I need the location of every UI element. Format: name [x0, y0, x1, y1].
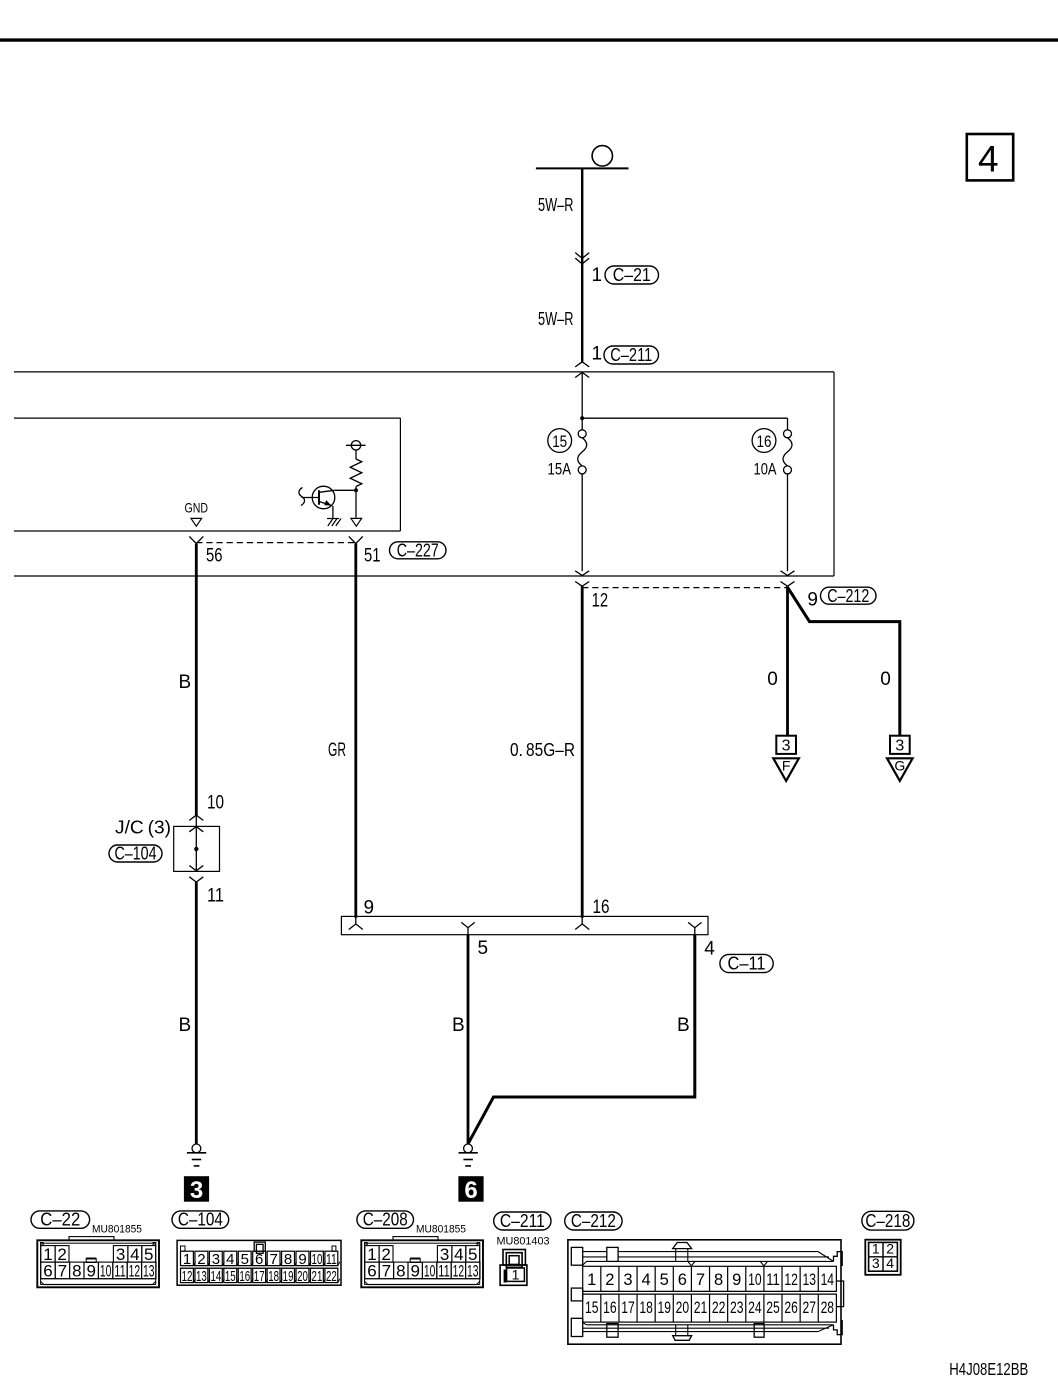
C-212 pin 24	[745, 1294, 747, 1322]
off-page triangle G	[887, 758, 913, 781]
svg-text:MU801403: MU801403	[497, 1235, 550, 1247]
svg-text:C–104: C–104	[115, 844, 157, 864]
svg-text:B: B	[179, 672, 192, 693]
svg-text:11: 11	[207, 886, 224, 907]
svg-text:10: 10	[207, 793, 224, 814]
C-22 pin 13	[142, 1262, 156, 1279]
fuse 16 number circle	[752, 429, 776, 453]
connector label C-104 bottom	[172, 1211, 229, 1228]
junction connector J/C(3) box C-104	[195, 815, 197, 870]
connector C-208 corner keys	[365, 1243, 368, 1246]
svg-text:11: 11	[438, 1261, 450, 1280]
connector label C-212 mid	[821, 587, 877, 604]
C-104 pin 13	[195, 1268, 208, 1282]
connector C-11 box	[341, 916, 708, 934]
C-22 pin 1	[41, 1246, 55, 1263]
svg-text:H4J08E12BB: H4J08E12BB	[949, 1359, 1028, 1379]
C-212 pin 3	[618, 1266, 620, 1291]
svg-text:10: 10	[424, 1261, 436, 1280]
svg-text:16: 16	[757, 432, 772, 451]
connector label C-212 bottom	[565, 1212, 622, 1230]
C-212 pin 14	[817, 1266, 819, 1291]
svg-text:3: 3	[623, 1271, 632, 1289]
transistor Q1 (output)	[312, 486, 335, 509]
C-104 pin 16	[238, 1268, 251, 1282]
C-212 crossing chevrons pin 12	[575, 571, 589, 576]
connector C-22 centre lock tab	[86, 1259, 96, 1263]
svg-text:24: 24	[748, 1299, 762, 1317]
C-208 pin 5	[466, 1246, 480, 1263]
connector C-22 bottom tray lines	[41, 1278, 156, 1280]
C-22 pin 7	[55, 1262, 69, 1279]
sheet reference square 3 for G	[890, 736, 910, 754]
connector C-104 top tab	[254, 1242, 265, 1251]
svg-text:6: 6	[367, 1261, 376, 1280]
svg-text:13: 13	[467, 1261, 479, 1280]
C-208 pin 11	[437, 1262, 451, 1279]
svg-text:MU801855: MU801855	[92, 1224, 142, 1236]
svg-text:C–211: C–211	[610, 345, 652, 365]
wire B from J/C down to ground	[195, 882, 198, 1144]
C-212 pin 21	[690, 1294, 692, 1322]
svg-text:7: 7	[58, 1261, 67, 1280]
C-104 pin 6	[253, 1251, 266, 1265]
connector C-22 corner keys	[41, 1243, 44, 1246]
C-212 pin 23	[727, 1294, 729, 1322]
svg-text:14: 14	[210, 1268, 221, 1285]
svg-text:3: 3	[782, 738, 791, 755]
svg-text:12: 12	[453, 1261, 465, 1280]
svg-text:16: 16	[603, 1299, 617, 1317]
svg-text:4: 4	[978, 138, 999, 179]
svg-text:15A: 15A	[548, 460, 572, 479]
C-104 pin 8	[282, 1251, 295, 1265]
C-212 pin 28	[817, 1294, 819, 1322]
ECU box top edge	[14, 417, 400, 419]
C-104 pin 19	[282, 1268, 295, 1282]
C-104 pin 7	[267, 1251, 280, 1265]
resistor R (pull-up)	[350, 459, 362, 487]
svg-text:C–212: C–212	[827, 586, 869, 606]
svg-text:8: 8	[396, 1261, 405, 1280]
svg-text:B: B	[179, 1015, 192, 1036]
J/C exit forks	[189, 866, 203, 871]
svg-text:G: G	[894, 758, 905, 774]
svg-text:4: 4	[226, 1251, 234, 1268]
svg-text:15: 15	[552, 432, 567, 451]
C-104 pin 20	[296, 1268, 309, 1282]
connector label C-227	[390, 542, 447, 559]
wire power circle to resistor	[355, 450, 357, 459]
junction block box right edge	[833, 372, 835, 576]
connector C-212 body outline	[568, 1240, 841, 1344]
C-212 top centre tab	[673, 1243, 692, 1249]
svg-text:19: 19	[657, 1299, 671, 1317]
wire B pin 5 to ground	[467, 935, 470, 1144]
svg-text:0. 85G–R: 0. 85G–R	[510, 740, 575, 760]
C-212 pin 4	[636, 1266, 638, 1291]
connector C-22 top tab	[69, 1237, 114, 1241]
emitter wire to chassis ground	[332, 506, 334, 519]
connector C-208 top tab	[393, 1237, 438, 1241]
connector label C-218	[862, 1211, 914, 1230]
svg-text:MU801855: MU801855	[416, 1224, 466, 1236]
C-22 pin 10	[98, 1262, 112, 1279]
connector C-208 centre lock tab	[410, 1259, 420, 1263]
svg-text:1: 1	[592, 265, 603, 286]
svg-text:23: 23	[730, 1299, 744, 1317]
ground symbol center	[464, 1144, 473, 1153]
C-22 pin 8	[70, 1262, 84, 1279]
C-104 pin 10	[310, 1251, 323, 1265]
svg-text:1: 1	[587, 1271, 596, 1289]
C-208 pin 1	[365, 1246, 379, 1263]
C-212 pin 27	[799, 1294, 801, 1322]
C-104 pin 9	[296, 1251, 309, 1265]
C-212 crossing chevrons pin 9	[781, 571, 795, 576]
svg-text:C–211: C–211	[500, 1211, 545, 1231]
svg-text:12: 12	[182, 1268, 193, 1285]
wire GR from pin 51 down to C-11	[354, 544, 357, 918]
fuse 15 number circle	[548, 429, 572, 453]
connector C-208 body outline	[361, 1240, 483, 1287]
C-208 pin 4	[452, 1246, 466, 1263]
C-104 pin 5	[238, 1251, 251, 1265]
C-208 pin 2	[379, 1246, 393, 1263]
svg-text:18: 18	[268, 1268, 279, 1285]
svg-text:17: 17	[254, 1268, 265, 1285]
svg-text:22: 22	[326, 1268, 337, 1285]
transistor circuit power circle	[351, 441, 360, 450]
C-212 bottom centre tab	[673, 1336, 692, 1341]
svg-text:F: F	[782, 758, 791, 774]
C-104 pin 18	[267, 1268, 280, 1282]
svg-text:8: 8	[714, 1271, 723, 1289]
wire pin 9 branch diagonal	[788, 587, 900, 736]
svg-text:22: 22	[712, 1299, 726, 1317]
power source circle	[592, 146, 612, 166]
C-22 pin 4	[128, 1246, 142, 1263]
svg-text:28: 28	[821, 1299, 835, 1317]
chassis ground hatch	[327, 518, 339, 520]
C-208 pin 13	[466, 1262, 480, 1279]
svg-text:C–104: C–104	[178, 1210, 223, 1230]
C-212 pin 19	[654, 1294, 656, 1322]
svg-text:11: 11	[114, 1261, 126, 1280]
svg-text:GND: GND	[185, 500, 209, 516]
svg-text:C–218: C–218	[865, 1211, 910, 1231]
svg-text:7: 7	[382, 1261, 391, 1280]
svg-text:4: 4	[704, 939, 715, 960]
svg-text:8: 8	[72, 1261, 81, 1280]
connector C-22 body outline	[37, 1240, 159, 1287]
C-212 pin 16	[600, 1294, 602, 1322]
connector C-104 row separator	[181, 1265, 338, 1267]
svg-text:6: 6	[678, 1271, 687, 1289]
svg-text:3: 3	[895, 738, 904, 755]
svg-text:C–21: C–21	[613, 265, 651, 285]
C-212 bottom right latch	[834, 1320, 843, 1335]
C-104 pin 21	[310, 1268, 323, 1282]
svg-text:6: 6	[43, 1261, 52, 1280]
C-212 pin grid outline row2	[583, 1294, 837, 1322]
C-208 pin 7	[379, 1262, 393, 1279]
wire resistor to collector node	[355, 487, 357, 518]
svg-text:9: 9	[298, 1251, 306, 1268]
wire B pin 4 down	[468, 935, 694, 1143]
svg-text:9: 9	[807, 590, 818, 611]
svg-text:9: 9	[410, 1261, 419, 1280]
svg-text:14: 14	[821, 1271, 835, 1289]
svg-text:12: 12	[129, 1261, 141, 1280]
svg-text:C–11: C–11	[728, 954, 766, 974]
wire fuse 15 to box bottom	[581, 474, 583, 571]
svg-text:21: 21	[694, 1299, 708, 1317]
svg-text:5: 5	[478, 938, 489, 959]
svg-text:0: 0	[767, 669, 778, 690]
svg-text:10A: 10A	[754, 460, 778, 479]
C-212 pin 9	[727, 1266, 729, 1291]
svg-text:2: 2	[197, 1251, 205, 1268]
svg-text:C–208: C–208	[363, 1210, 408, 1230]
C-212 dashed connector line	[582, 587, 787, 589]
page top border line	[0, 38, 1058, 41]
svg-text:12: 12	[592, 591, 609, 612]
svg-text:5: 5	[660, 1271, 669, 1289]
svg-text:4: 4	[886, 1255, 894, 1271]
svg-text:3: 3	[212, 1251, 220, 1268]
C-212 pin 13	[799, 1266, 801, 1291]
connector C-211 crossing chevrons at box top	[575, 362, 589, 367]
C-208 pin 10	[422, 1262, 436, 1279]
off-page triangle F	[773, 758, 799, 781]
connector label C-211 bottom	[494, 1212, 551, 1230]
svg-text:51: 51	[364, 545, 381, 566]
connector C-104 corner keys	[181, 1246, 186, 1251]
connector C-104 body outline	[177, 1240, 341, 1285]
C-211 pin 1 cell	[507, 1268, 525, 1281]
GND arrow triangle	[191, 518, 202, 526]
connector C-21 inline symbol	[575, 253, 589, 259]
C-208 pin 9	[408, 1262, 422, 1279]
wire fuse 16 to box bottom	[787, 474, 789, 571]
svg-text:9: 9	[364, 898, 375, 919]
svg-text:C–22: C–22	[40, 1210, 80, 1230]
svg-text:2: 2	[605, 1271, 614, 1289]
connector label C-211	[604, 346, 659, 364]
svg-text:C–212: C–212	[571, 1211, 616, 1231]
svg-text:20: 20	[676, 1299, 690, 1317]
C-208 pin 6	[365, 1262, 379, 1279]
C-11 entry chevron pin 16	[581, 916, 583, 924]
C-22 pin 5	[142, 1246, 156, 1263]
svg-text:10: 10	[312, 1251, 323, 1268]
connector C-227 fork pin 51	[349, 536, 363, 543]
C-212 pin 11	[763, 1266, 765, 1291]
C-22 pin 6	[41, 1262, 55, 1279]
wire pin 9 vertical to F terminal	[786, 586, 789, 736]
C-212 pin 18	[636, 1294, 638, 1322]
connector C-218 body	[865, 1240, 900, 1275]
C-208 pin 8	[394, 1262, 408, 1279]
svg-text:27: 27	[802, 1299, 816, 1317]
svg-text:7: 7	[269, 1251, 277, 1268]
svg-text:3: 3	[190, 1177, 203, 1204]
C-208 pin 3	[437, 1246, 452, 1263]
svg-text:16: 16	[239, 1268, 250, 1285]
connector label C-22	[31, 1211, 90, 1228]
C-22 pin 11	[113, 1262, 127, 1279]
C-212 pin 26	[781, 1294, 783, 1322]
svg-text:9: 9	[732, 1271, 741, 1289]
svg-text:B: B	[452, 1015, 465, 1036]
junction node dot	[580, 416, 584, 420]
connector C-227 fork pin 56	[189, 536, 203, 543]
svg-text:1: 1	[183, 1251, 191, 1268]
collector node dot	[354, 488, 358, 492]
C-212 pin 5	[654, 1266, 656, 1291]
svg-text:7: 7	[696, 1271, 705, 1289]
svg-text:20: 20	[297, 1268, 308, 1285]
C-104 pin 14	[209, 1268, 222, 1282]
svg-text:8: 8	[284, 1251, 292, 1268]
svg-text:4: 4	[642, 1271, 651, 1289]
svg-text:6: 6	[464, 1177, 477, 1204]
C-104 pin 1	[181, 1251, 194, 1265]
wire B from pin 56 down to J/C	[195, 544, 198, 816]
C-104 pin 22	[325, 1268, 338, 1282]
svg-text:5: 5	[241, 1251, 249, 1268]
C-11 exit fork pin 5	[461, 922, 474, 927]
C-212 top right latch	[834, 1252, 843, 1266]
node to transistor collector wire	[335, 489, 356, 491]
transistor base squiggle lead	[299, 488, 305, 506]
svg-text:GR: GR	[328, 740, 346, 761]
C-212 pin 8	[709, 1266, 711, 1291]
C-104 pin 15	[224, 1268, 237, 1282]
svg-text:16: 16	[593, 897, 610, 918]
C-22 pin 9	[84, 1262, 98, 1279]
svg-text:11: 11	[326, 1251, 337, 1268]
wire 5W-R from power bus down to C-211	[581, 168, 583, 361]
svg-text:25: 25	[766, 1299, 780, 1317]
C-212 pin 2	[600, 1266, 602, 1291]
svg-text:12: 12	[784, 1271, 798, 1289]
fuse 16 symbol	[784, 430, 792, 438]
C-212 pin 10	[745, 1266, 747, 1291]
C-212 polarization notches	[688, 1262, 768, 1266]
junction block box top edge	[14, 371, 834, 373]
C-212 pin 20	[672, 1294, 674, 1322]
connector C-208 bottom tray lines	[365, 1278, 480, 1280]
svg-text:13: 13	[802, 1271, 816, 1289]
C-104 pin 2	[195, 1251, 208, 1265]
C-104 pin 12	[181, 1268, 194, 1282]
ground symbol left	[192, 1144, 201, 1153]
C-104 pin 17	[253, 1268, 266, 1282]
C-212 left tabs	[571, 1247, 582, 1265]
branch wire to fuse 16	[582, 417, 787, 419]
svg-text:C–227: C–227	[397, 540, 439, 560]
C-11 exit fork pin 4	[688, 922, 701, 927]
svg-text:13: 13	[196, 1268, 207, 1285]
svg-text:6: 6	[255, 1251, 263, 1268]
svg-text:5W–R: 5W–R	[538, 195, 574, 215]
svg-text:21: 21	[312, 1268, 323, 1285]
svg-text:5W–R: 5W–R	[538, 309, 574, 329]
C-212 pin 12	[781, 1266, 783, 1291]
C-212 bottom cover band	[582, 1322, 834, 1332]
wire 0.85G-R from pin 12 down to C-11	[581, 586, 584, 918]
connector label C-11	[720, 954, 773, 972]
connector C-211 body	[503, 1250, 525, 1266]
connector label C-21	[605, 266, 659, 284]
C-22 pin 12	[127, 1262, 141, 1279]
C-212 pin 6	[672, 1266, 674, 1291]
C-212 pin 7	[690, 1266, 692, 1291]
fuse 15 symbol	[578, 430, 586, 438]
svg-text:0: 0	[880, 669, 891, 690]
C-212 right latch	[837, 1281, 844, 1307]
svg-text:1: 1	[592, 344, 603, 365]
C-212 top cover band	[582, 1252, 834, 1266]
C-212 pin 22	[709, 1294, 711, 1322]
ground number square 6	[459, 1177, 483, 1201]
C-212 pin 25	[763, 1294, 765, 1322]
power bus line	[536, 167, 629, 169]
output arrow triangle	[351, 518, 362, 526]
svg-text:15: 15	[225, 1268, 236, 1285]
svg-text:10: 10	[748, 1271, 762, 1289]
svg-text:26: 26	[784, 1299, 798, 1317]
C-104 pin 4	[224, 1251, 237, 1265]
svg-text:18: 18	[639, 1299, 653, 1317]
svg-text:9: 9	[86, 1261, 95, 1280]
C-212 pin grid outline row1	[583, 1266, 837, 1291]
svg-text:19: 19	[283, 1268, 294, 1285]
svg-text:10: 10	[100, 1261, 112, 1280]
svg-text:1: 1	[512, 1266, 520, 1282]
svg-text:15: 15	[585, 1299, 599, 1317]
ECU box right edge	[399, 418, 401, 531]
svg-text:B: B	[677, 1015, 690, 1036]
svg-text:11: 11	[766, 1271, 780, 1289]
svg-text:3: 3	[872, 1255, 880, 1271]
ECU box bottom edge	[14, 530, 400, 532]
C-22 pin 2	[55, 1246, 69, 1263]
C-208 pin 12	[451, 1262, 465, 1279]
svg-text:56: 56	[206, 545, 223, 566]
C-104 pin 3	[209, 1251, 222, 1265]
junction block box bottom edge	[14, 575, 834, 577]
ground number square 3	[185, 1177, 209, 1201]
page number box 4	[967, 134, 1013, 180]
svg-text:13: 13	[143, 1261, 155, 1280]
connector label C-208	[357, 1211, 414, 1228]
C-227 dashed connector line	[196, 542, 355, 544]
wire from C-211 to fuse node	[581, 372, 583, 430]
C-11 entry chevron pin 9	[355, 916, 357, 924]
C-212 pin 17	[618, 1294, 620, 1322]
J/C entry chevrons	[189, 815, 203, 820]
svg-text:J/C (3): J/C (3)	[115, 818, 171, 838]
svg-text:17: 17	[621, 1299, 635, 1317]
C-212 pin grid row separator	[583, 1290, 837, 1292]
C-22 pin 3	[113, 1246, 128, 1263]
sheet reference square 3 for F	[776, 736, 796, 754]
C-104 pin 11	[325, 1251, 338, 1265]
connector label C-104 at J/C	[109, 845, 162, 862]
